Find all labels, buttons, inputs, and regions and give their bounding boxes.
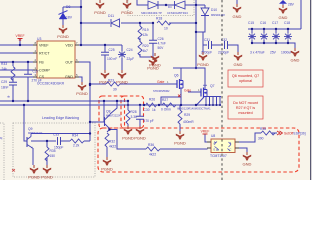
diode D10 (201, 8, 225, 17)
diode D4 (167, 1, 188, 15)
svg-text:C30: C30 (144, 108, 150, 112)
svg-text:R34: R34 (72, 134, 78, 138)
svg-text:IMBG120R140M033CTMA1: IMBG120R140M033CTMA1 (177, 106, 211, 110)
resistor R36 (146, 147, 160, 151)
svg-text:C27: C27 (33, 70, 39, 74)
svg-text:PGND: PGND (101, 167, 113, 172)
wire OUT down (75, 62, 90, 141)
svg-text:C24: C24 (127, 48, 133, 52)
R29 branch (179, 105, 181, 110)
svg-text:D11: D11 (108, 14, 114, 18)
svg-text:E: E (214, 148, 216, 152)
ground GND (top mid) (236, 0, 238, 4)
off-page connector SetOff (277, 131, 306, 136)
wire R19/R20 divider (139, 23, 141, 26)
svg-text:400mR: 400mR (183, 120, 194, 124)
svg-text:b]: b] (0, 136, 3, 140)
zener D8 (59, 5, 73, 20)
svg-text:MMBT2222A: MMBT2222A (28, 132, 43, 135)
transistor Q7 (MOSFET) (201, 88, 207, 98)
svg-text:A: A (230, 141, 232, 145)
svg-text:R27: R27 (162, 98, 168, 102)
junction dots right (23, 83, 221, 142)
resistor R29 (178, 110, 182, 124)
svg-text:4.7nF: 4.7nF (158, 42, 166, 46)
svg-text:PGND: PGND (28, 175, 40, 180)
svg-text:270 pF: 270 pF (32, 79, 42, 83)
svg-text:RT/CT: RT/CT (39, 52, 50, 56)
wire rail B (0, 104, 221, 106)
ground PGND (C31) (199, 52, 207, 61)
svg-text:4k22: 4k22 (109, 145, 116, 149)
svg-text:U3: U3 (37, 37, 41, 41)
sheet right margin (312, 0, 320, 180)
svg-text:PGND: PGND (121, 10, 133, 15)
capacitor C29 (9, 82, 17, 85)
svg-text:PGND: PGND (122, 136, 134, 141)
comb source pins (203, 96, 221, 98)
transistor Q9 (27, 127, 43, 148)
wire rail A (0, 100, 128, 102)
ground PGND (zener) (59, 25, 67, 34)
capacitor C18 (284, 33, 292, 39)
svg-text:CFS30G05TR13: CFS30G05TR13 (167, 11, 188, 15)
svg-text:C25: C25 (109, 48, 115, 52)
svg-text:R35: R35 (50, 149, 56, 153)
svg-text:TCMT1107: TCMT1107 (210, 154, 227, 158)
svg-text:D4: D4 (168, 5, 172, 9)
ground PGND (C26/R20) (149, 57, 157, 66)
svg-text:18V: 18V (66, 16, 73, 20)
capacitor C30 (136, 105, 144, 126)
opto U8 TCMT1107 (207, 134, 239, 158)
svg-text:C31: C31 (204, 38, 210, 42)
wire C26 (152, 23, 154, 40)
transistor Q6 (MOSFET) (177, 79, 183, 89)
capacitor C16 (260, 33, 268, 39)
svg-text:150: 150 (50, 154, 56, 158)
capacitor C17 (272, 33, 280, 39)
background sheet (0, 0, 319, 180)
svg-text:25V: 25V (270, 51, 277, 55)
svg-text:2200pF: 2200pF (218, 51, 229, 55)
svg-text:3 x 470uF: 3 x 470uF (250, 51, 265, 55)
ground PGND (Q9 emitter) (30, 165, 38, 174)
svg-text:ESP[3b]: ESP[3b] (294, 132, 306, 136)
resistor R32 (105, 133, 109, 147)
svg-text:C: C (230, 148, 232, 152)
ground PGND (R35) (43, 165, 51, 174)
ground GND (cap bank) (291, 48, 299, 57)
svg-text:39: 39 (113, 88, 117, 92)
svg-text:PGND: PGND (134, 136, 146, 141)
wire D10 down (204, 5, 206, 8)
svg-text:R26: R26 (149, 98, 155, 102)
svg-text:D10: D10 (211, 8, 217, 12)
opto input leads (205, 134, 211, 142)
note box 2 (228, 96, 263, 119)
dotted box fragment left edge (0, 123, 4, 180)
capacitor C26 (149, 40, 157, 43)
wire diode row (137, 0, 148, 5)
wire Q8 base feed (90, 121, 104, 123)
svg-text:PGND: PGND (197, 62, 209, 67)
svg-text:R23: R23 (108, 79, 114, 83)
diode D6 (141, 1, 162, 15)
Q8 verticals (103, 101, 105, 122)
svg-text:28V: 28V (288, 3, 295, 7)
svg-text:GND: GND (65, 75, 73, 79)
wire drain rail (24, 68, 277, 165)
svg-text:D8: D8 (66, 5, 70, 9)
svg-text:2.2k: 2.2k (73, 144, 80, 148)
wire zener tap (63, 6, 81, 8)
svg-text:4k7: 4k7 (143, 49, 148, 53)
red dashed box small (Q8) (99, 96, 125, 128)
svg-text:GND: GND (234, 62, 243, 67)
svg-text:150pF: 150pF (54, 146, 63, 150)
svg-text:R38: R38 (260, 127, 266, 131)
svg-text:1000uF: 1000uF (281, 51, 292, 55)
svg-text:PGND: PGND (41, 175, 53, 180)
resistor R33 (11, 67, 15, 81)
wire output cap bank (248, 0, 301, 48)
LEB internals (24, 106, 27, 141)
svg-text:MMSD4148: MMSD4148 (211, 13, 225, 17)
ground PGND (left of MOSFETs) (151, 53, 159, 62)
power symbol VREF (15, 34, 24, 40)
capacitor C24 (118, 51, 126, 57)
svg-text:VREF: VREF (15, 34, 24, 38)
wire VDD rail to D11 (81, 22, 110, 24)
svg-text:Q6: Q6 (174, 74, 179, 78)
svg-text:PGND: PGND (174, 141, 186, 146)
svg-text:R19: R19 (143, 28, 149, 32)
ground GND (C32) (234, 52, 242, 61)
svg-text:VREF: VREF (39, 44, 49, 48)
svg-text:VREF: VREF (201, 130, 210, 134)
wire comp network verticals (12, 62, 14, 66)
capacitor C25 (101, 52, 109, 55)
wire Y-cap branch (203, 32, 207, 45)
opto output leads (235, 133, 261, 142)
dotted box around snubber diodes (128, 0, 194, 16)
capacitor C15 (248, 33, 256, 39)
resistor R34 (70, 139, 84, 143)
resistor R35 (45, 147, 49, 161)
svg-text:GND: GND (279, 15, 288, 20)
svg-text:FB: FB (39, 61, 44, 65)
transistor Q8 (105, 110, 121, 130)
svg-text:22µF: 22µF (127, 57, 135, 61)
svg-text:Q9: Q9 (28, 127, 33, 131)
capacitor C33 (58, 137, 61, 145)
svg-text:SMC3K64D3-TP: SMC3K64D3-TP (141, 11, 162, 15)
svg-text:24k: 24k (2, 67, 8, 71)
svg-text:R36: R36 (148, 143, 154, 147)
stray red mark (12, 169, 15, 172)
ground PGND (R32) (103, 157, 111, 166)
resistor R38 (261, 131, 275, 135)
svg-text:mounted: mounted (238, 111, 252, 115)
svg-text:50V: 50V (158, 46, 165, 50)
ground GND (opto) (243, 152, 251, 161)
resistor R26 (146, 103, 157, 107)
Q8 emitter node (110, 130, 147, 150)
ground PGND (IC GND pin) (78, 82, 86, 91)
svg-text:STD36N55M2: STD36N55M2 (153, 89, 170, 93)
svg-text:GND: GND (243, 162, 252, 167)
wire VDD vertical feed (0, 0, 238, 141)
svg-text:U8: U8 (211, 134, 215, 138)
wire Q9 collector link (31, 133, 90, 135)
capacitor C32 (Y-cap) (218, 38, 229, 55)
svg-text:Gate: Gate (157, 80, 164, 84)
svg-text:1k: 1k (152, 108, 156, 112)
svg-text:SetOff: SetOff (284, 132, 293, 136)
resistor R23 (106, 82, 120, 86)
junction dots (12, 4, 197, 102)
wire IC GND pin (75, 77, 82, 82)
svg-text:PGND: PGND (94, 10, 106, 15)
ground PGND (C24) (118, 70, 126, 79)
power symbol 28V (279, 0, 287, 4)
svg-text:C15: C15 (248, 21, 254, 25)
ground GND (top right) (279, 5, 287, 14)
ground PGND (R29) (176, 131, 184, 140)
capacitor C27 (24, 74, 32, 77)
svg-text:18nF: 18nF (1, 86, 9, 90)
wire VREF symbol lead (19, 39, 21, 46)
svg-text:R27 if Q7 is: R27 if Q7 is (236, 106, 255, 110)
svg-text:100 nF: 100 nF (107, 57, 117, 61)
svg-text:PGND: PGND (57, 34, 69, 39)
svg-text:Leading Edge Blanking: Leading Edge Blanking (42, 116, 79, 120)
svg-text:390: 390 (258, 137, 264, 141)
svg-text:Q8: Q8 (106, 110, 111, 114)
resistor R20 (138, 42, 142, 56)
svg-text:C17: C17 (272, 21, 278, 25)
svg-text:PGND: PGND (76, 91, 88, 96)
svg-text:C26: C26 (158, 37, 164, 41)
red dashed box small (R28/C30) (121, 96, 144, 128)
svg-text:COMP: COMP (39, 69, 50, 73)
svg-text:10: 10 (164, 27, 168, 31)
wire VDD pin row (75, 44, 122, 46)
svg-text:470 pF: 470 pF (144, 119, 154, 123)
svg-text:PGND: PGND (116, 80, 128, 85)
wire IC left pins (0, 44, 33, 46)
resistor R18 (157, 21, 171, 25)
diode D11 (108, 14, 120, 27)
svg-text:R32: R32 (109, 140, 115, 144)
svg-text:OUT: OUT (65, 61, 73, 65)
capacitor C31 (Y-cap) (201, 38, 212, 55)
svg-text:Gate: Gate (184, 88, 191, 92)
svg-text:C33: C33 (53, 133, 59, 137)
sheet border line (310, 0, 312, 180)
svg-text:C29: C29 (1, 80, 7, 84)
svg-text:Do NOT mount: Do NOT mount (233, 101, 258, 105)
isolation barrier dashed line (221, 0, 223, 180)
ground PGND (top leads) (96, 0, 104, 9)
svg-text:C18: C18 (284, 21, 290, 25)
svg-text:R29: R29 (184, 113, 190, 117)
svg-text:3.3k: 3.3k (131, 115, 138, 119)
resistor R28 (126, 110, 130, 124)
note box 1 (228, 70, 263, 87)
svg-text:C16: C16 (260, 21, 266, 25)
ground PGND (C30) (136, 126, 144, 135)
svg-text:R28: R28 (131, 110, 137, 114)
wire R27 bypass jog (161, 97, 181, 105)
svg-text:Q6 mounted, Q7: Q6 mounted, Q7 (232, 74, 259, 78)
svg-text:VDD: VDD (65, 44, 73, 48)
svg-text:C: C (214, 142, 216, 146)
svg-text:12k: 12k (143, 33, 149, 37)
svg-text:optional: optional (239, 79, 252, 83)
svg-text:4k22: 4k22 (149, 153, 156, 157)
svg-text:GND: GND (233, 14, 242, 19)
svg-text:Q7: Q7 (210, 84, 215, 88)
svg-text:MMBT2222A: MMBT2222A (106, 115, 121, 118)
ground PGND (C25) (101, 70, 109, 79)
svg-text:GND: GND (291, 58, 300, 63)
IC U3 UCC28C43 (33, 37, 79, 86)
svg-text:R33: R33 (1, 62, 7, 66)
svg-text:PGND: PGND (149, 63, 161, 68)
svg-text:R18: R18 (156, 17, 162, 21)
no-connect marker (178, 95, 181, 98)
resistor R19 (138, 26, 142, 40)
junction dots cap bank (251, 28, 289, 44)
ground PGND (R28) (124, 126, 132, 135)
svg-text:nb: nb (7, 95, 11, 99)
resistor R27 (162, 103, 176, 107)
red dashed box big (98, 128, 299, 172)
svg-text:0 Ohm: 0 Ohm (161, 108, 171, 112)
Leading Edge Blanking dotted box (13, 123, 95, 177)
svg-text:R20: R20 (143, 44, 149, 48)
